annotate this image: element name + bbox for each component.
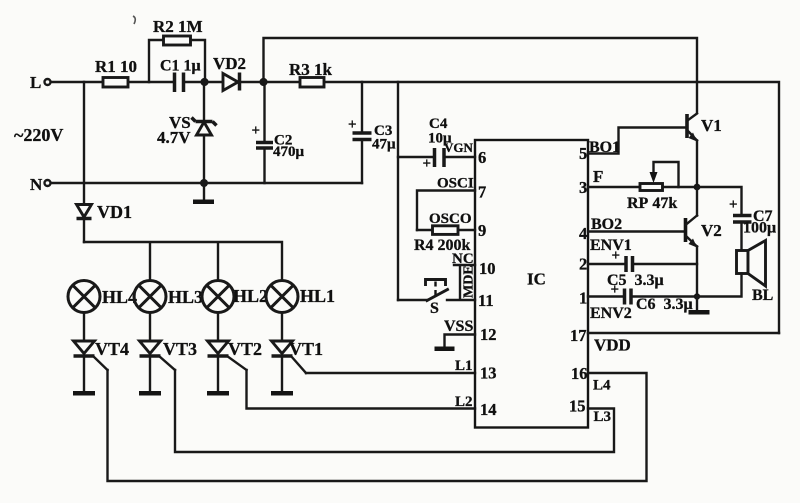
svg-text:HL1: HL1 bbox=[300, 286, 335, 306]
svg-text:HL3: HL3 bbox=[168, 287, 203, 307]
svg-text:ENV1: ENV1 bbox=[590, 237, 632, 254]
wire L4 net VT4 gate to pin16 bbox=[108, 370, 647, 481]
resistor R1 bbox=[95, 57, 137, 87]
svg-text:4: 4 bbox=[579, 224, 587, 243]
svg-text:VD2: VD2 bbox=[213, 54, 246, 73]
node L terminal bbox=[30, 73, 51, 92]
svg-text:11: 11 bbox=[478, 291, 494, 310]
node L4 L3 labels bbox=[593, 378, 611, 426]
svg-text:VGN: VGN bbox=[444, 140, 474, 155]
capacitor C2 bbox=[252, 82, 305, 183]
svg-text:470μ: 470μ bbox=[273, 144, 305, 160]
capacitor C7 bbox=[729, 197, 776, 250]
lamp HL2 bbox=[202, 281, 268, 313]
svg-text:16: 16 bbox=[571, 364, 588, 383]
svg-text:+: + bbox=[348, 117, 357, 133]
svg-text:BL: BL bbox=[752, 287, 773, 304]
node L1 L2 labels bbox=[455, 358, 473, 410]
svg-text:17: 17 bbox=[570, 326, 587, 345]
capacitor C3 bbox=[348, 82, 396, 183]
capacitor C1 bbox=[160, 58, 201, 93]
svg-text:HL2: HL2 bbox=[233, 286, 268, 306]
thyristor VT2 bbox=[207, 313, 262, 396]
svg-text:L2: L2 bbox=[455, 394, 473, 410]
svg-text:+: + bbox=[611, 282, 620, 298]
svg-text:HL4: HL4 bbox=[102, 287, 137, 307]
wire L2 net VT2 gate to pin14 bbox=[247, 370, 476, 409]
svg-text:VT2: VT2 bbox=[228, 339, 262, 359]
svg-text:+: + bbox=[729, 197, 738, 213]
svg-text:12: 12 bbox=[480, 325, 497, 344]
thyristor VT3 bbox=[139, 313, 197, 396]
svg-text:6: 6 bbox=[478, 148, 486, 167]
svg-text:10: 10 bbox=[479, 259, 496, 278]
resistor R3 bbox=[289, 60, 333, 87]
lamp HL4 bbox=[68, 281, 137, 313]
node pin numbers left side bbox=[478, 148, 497, 419]
svg-text:14: 14 bbox=[480, 400, 497, 419]
svg-text:VD1: VD1 bbox=[97, 202, 132, 222]
node junction C1/R2/VS bbox=[200, 78, 208, 86]
svg-text:RP 47k: RP 47k bbox=[627, 195, 677, 212]
svg-text:BO2: BO2 bbox=[591, 216, 622, 233]
svg-text:R1 10: R1 10 bbox=[95, 57, 137, 76]
lamp HL3 bbox=[134, 281, 203, 313]
node ~220V label bbox=[14, 125, 63, 145]
node MDE pin11 label bbox=[460, 265, 477, 299]
node pin numbers right side bbox=[569, 144, 588, 416]
svg-text:C6 3.3μ: C6 3.3μ bbox=[636, 296, 693, 313]
wire junction to C7 bbox=[697, 187, 742, 214]
svg-text:NC: NC bbox=[452, 251, 474, 267]
svg-text:13: 13 bbox=[480, 364, 497, 383]
ground below V2 bbox=[689, 297, 710, 315]
resistor R2 bbox=[153, 17, 203, 45]
svg-text:F: F bbox=[593, 167, 603, 186]
wire ENV1 pin2 with capacitor C5 bbox=[588, 237, 697, 289]
svg-text:7: 7 bbox=[478, 183, 486, 202]
transistor V2 bbox=[686, 187, 722, 297]
svg-text:MDE: MDE bbox=[462, 265, 477, 298]
wire top rail y=38 to V1 collector bbox=[264, 38, 698, 112]
ground below VS bbox=[193, 183, 214, 204]
svg-text:3: 3 bbox=[579, 178, 587, 197]
svg-text:VDD: VDD bbox=[594, 336, 631, 355]
svg-text:+: + bbox=[423, 156, 432, 172]
svg-text:L3: L3 bbox=[594, 409, 612, 425]
wire main live rail y=82 from L to right rail bbox=[51, 82, 779, 333]
svg-text:R2 1M: R2 1M bbox=[153, 17, 203, 36]
svg-text:L1: L1 bbox=[455, 358, 473, 374]
diode VD1 bbox=[77, 82, 133, 242]
node N terminal bbox=[30, 175, 51, 194]
svg-text:VSS: VSS bbox=[444, 318, 473, 335]
svg-text:9: 9 bbox=[478, 221, 486, 240]
potentiometer RP bbox=[627, 162, 679, 212]
switch S bbox=[398, 280, 475, 318]
wire F pin3 bbox=[588, 167, 697, 187]
wire R2 branch verticals bbox=[149, 40, 205, 82]
node junction V1 emitter/F bbox=[694, 184, 701, 191]
wire VDD pin17 to right rail bbox=[588, 333, 779, 355]
wire L3 net VT3 gate to pin15 bbox=[175, 370, 614, 452]
svg-text:C1 1μ: C1 1μ bbox=[160, 58, 201, 75]
wire C4/switch branch vertical x=398 bbox=[397, 82, 399, 300]
svg-text:+: + bbox=[252, 123, 261, 139]
speaker BL bbox=[697, 241, 773, 305]
svg-text:1: 1 bbox=[579, 289, 587, 308]
node junction VS/N bbox=[200, 179, 208, 187]
thyristor VT1 bbox=[271, 313, 323, 396]
thyristor VT4 bbox=[73, 313, 129, 396]
svg-text:V2: V2 bbox=[701, 221, 722, 240]
svg-text:100μ: 100μ bbox=[743, 220, 776, 237]
zener VS bbox=[157, 82, 217, 182]
transistor V1 bbox=[687, 114, 722, 188]
lamp HL1 bbox=[266, 281, 335, 313]
svg-text:ENV2: ENV2 bbox=[590, 305, 632, 322]
node junction V2 emitter ground bbox=[694, 293, 700, 299]
resistor R4 on OSCO pin9 wire bbox=[414, 211, 475, 254]
ground VSS pin12 bbox=[435, 318, 476, 351]
svg-text:N: N bbox=[30, 175, 43, 194]
wire BO2 pin4 to V2 base bbox=[588, 216, 685, 233]
svg-text:L: L bbox=[30, 73, 41, 92]
IC U1 box bbox=[475, 140, 588, 428]
node junction VD2/C2/top-rail bbox=[259, 78, 267, 86]
svg-text:VT1: VT1 bbox=[289, 339, 323, 359]
wire BO1 pin5 to V1 base bbox=[588, 128, 686, 157]
noise scan speck top left bbox=[133, 16, 135, 24]
svg-text:4.7V: 4.7V bbox=[157, 128, 191, 147]
svg-text:VT4: VT4 bbox=[95, 339, 129, 359]
wire neutral rail y=183 bbox=[51, 182, 362, 184]
wire L1 net VT1 gate to pin13 bbox=[306, 372, 475, 374]
diode VD2 bbox=[213, 54, 246, 91]
svg-text:BO1: BO1 bbox=[589, 139, 620, 156]
svg-text:L4: L4 bbox=[593, 378, 611, 394]
wire NC pin10 stub bbox=[452, 251, 475, 267]
svg-text:V1: V1 bbox=[701, 116, 722, 135]
svg-text:VT3: VT3 bbox=[163, 339, 197, 359]
svg-text:IC: IC bbox=[527, 270, 546, 289]
svg-text:47μ: 47μ bbox=[372, 137, 396, 153]
capacitor C4 bbox=[398, 116, 475, 172]
wire OSCI pin7 bbox=[417, 176, 475, 231]
svg-text:R3 1k: R3 1k bbox=[289, 60, 333, 79]
svg-text:~220V: ~220V bbox=[14, 125, 63, 145]
svg-text:5: 5 bbox=[579, 144, 587, 163]
svg-text:S: S bbox=[430, 300, 439, 317]
svg-text:OSCI: OSCI bbox=[437, 176, 474, 192]
wire ENV2 pin1 with capacitor C6 bbox=[588, 282, 697, 322]
svg-text:15: 15 bbox=[569, 397, 586, 416]
svg-text:2: 2 bbox=[579, 255, 587, 274]
wire lamp bus y=242 bbox=[84, 242, 282, 281]
svg-text:OSCO: OSCO bbox=[429, 211, 472, 227]
